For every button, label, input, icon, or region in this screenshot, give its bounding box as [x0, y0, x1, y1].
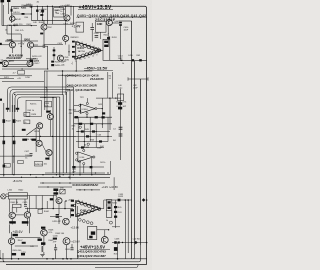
- svg-text:1k: 1k: [122, 63, 124, 65]
- left rails: [3, 103, 5, 177]
- capacitor C403: [30, 4, 32, 7]
- big label box mid-left: [26, 100, 41, 116]
- ground sym: [40, 254, 44, 256]
- bottom-left corner2: [3, 253, 5, 262]
- label Q417: [45, 158, 49, 160]
- wire v108: [107, 26, 109, 45]
- wire v30 link: [30, 48, 32, 61]
- wire y177.6: [0, 176, 110, 178]
- pin bubbles top edge: [76, 42, 101, 52]
- box y160: [18, 160, 23, 163]
- blobs y123.8: [79, 123, 93, 125]
- capacitor C401: [11, 9, 13, 12]
- wire q416-417: [42, 144, 46, 152]
- wire v110 mid: [109, 98, 111, 130]
- wire y208.6: [25, 208, 73, 210]
- center mesh horizontals: [76, 132, 110, 148]
- svg-text:C40 10: C40 10: [13, 12, 20, 14]
- left bus corner 2: [10, 90, 70, 113]
- transistor Q406: [63, 35, 69, 41]
- wire y25.6: [2, 25, 37, 27]
- ic405 left pin: [73, 204, 76, 207]
- wire v117.5: [117, 243, 119, 259]
- svg-text:14: 14: [75, 60, 77, 62]
- svg-text:R43 1k: R43 1k: [28, 110, 34, 112]
- box bottom right of center: [88, 226, 97, 239]
- blob d402: [40, 14, 43, 16]
- wire v107.8: [107, 72, 109, 98]
- more dots y174 pair: [21, 174, 74, 178]
- node top-left blobs: [1, 0, 5, 2]
- transistor Q421: [24, 212, 30, 218]
- extend y136.4: [76, 135, 112, 137]
- wire v102.3: [101, 98, 103, 128]
- resistor blobs on rails y121: [3, 119, 6, 123]
- transistor Q419: [63, 218, 70, 225]
- box GND: [95, 22, 106, 33]
- transistor Q402: [41, 24, 47, 30]
- wire y75.8: [0, 75, 32, 77]
- label on diagonal: [22, 129, 26, 131]
- capacitor c425: [24, 205, 27, 207]
- transistor Q413: [57, 55, 63, 61]
- junction y69: [21, 68, 48, 69]
- svg-text:+13.6V: +13.6V: [71, 240, 80, 244]
- blobs y167: [72, 166, 92, 168]
- components col x51-54: [51, 61, 54, 67]
- left column stack y205-228: [114, 206, 117, 218]
- relay X: [2, 195, 5, 198]
- svg-text:2: 2: [82, 42, 83, 44]
- box R425: [24, 112, 30, 116]
- input components column x73: [72, 41, 75, 58]
- svg-text:+13.6V: +13.6V: [71, 226, 80, 230]
- wire ic402 stubs: [80, 158, 92, 175]
- dots y242.5: [122, 242, 133, 243]
- wire v65.9: [65, 75, 67, 95]
- box 1k left of triangle: [76, 22, 84, 32]
- wire apex to box: [100, 208, 104, 210]
- wire y227 stub: [112, 226, 120, 228]
- wires bottom verticals: [12, 208, 72, 259]
- wire v7: [6, 26, 8, 34]
- label R440 box: [4, 163, 10, 167]
- svg-text:Q409: Q409: [7, 39, 14, 42]
- wire q411 right: [8, 60, 28, 62]
- bottom-left corners: [0, 250, 2, 259]
- diagonal wire: [26, 127, 37, 135]
- blob below Q402: [40, 33, 43, 35]
- wire relay-box: [6, 195, 8, 197]
- wire q402 stubs: [43, 20, 45, 24]
- wire y123.8: [74, 123, 112, 125]
- box R429: [45, 102, 52, 107]
- wire v109.8 up: [109, 36, 111, 39]
- wire v47 down: [46, 71, 48, 113]
- paper background: [0, 0, 152, 270]
- capacitor C427: [56, 214, 60, 218]
- svg-text:3: 3: [86, 44, 87, 46]
- wire y97.5: [40, 97, 56, 99]
- blob left edge y99: [0, 99, 2, 101]
- small opamp IC404: [80, 104, 95, 113]
- dots y183: [42, 182, 70, 187]
- wire v54: [53, 47, 55, 60]
- wire y34: [7, 33, 21, 35]
- blob rail y165: [3, 165, 5, 168]
- svg-text:2SA1943N: 2SA1943N: [6, 56, 20, 60]
- bottom right corner joins: [139, 245, 141, 262]
- label left blob: [0, 62, 2, 64]
- wire y156: [0, 155, 32, 157]
- junction y75: [62, 75, 63, 76]
- junction dots top: [31, 6, 72, 21]
- svg-text:AC42: AC42: [15, 18, 21, 21]
- ic402 pins: [76, 149, 96, 164]
- labels row y139: [22, 139, 27, 141]
- wire v69: [68, 45, 70, 56]
- blobs y254: [12, 253, 26, 255]
- svg-text:13: 13: [79, 59, 81, 61]
- blob left edge y43: [0, 43, 2, 45]
- wire y242.5 right: [112, 242, 147, 244]
- wire y200 right: [104, 199, 132, 201]
- junction dots hpair: [3, 174, 70, 178]
- svg-text:1k: 1k: [72, 129, 74, 131]
- transistor Q422: [8, 238, 14, 244]
- wire v71: [70, 6, 72, 15]
- ic405 bottom pins: [77, 209, 95, 217]
- wire y189.9: [76, 189, 100, 191]
- dots y173b: [95, 172, 109, 173]
- blob x102 upper: [102, 112, 105, 114]
- svg-text:C428 47P: C428 47P: [52, 221, 62, 223]
- relay circle: [1, 194, 6, 199]
- capacitor C408: [90, 28, 94, 30]
- junction v69: [68, 51, 69, 52]
- svg-text:R430 1k: R430 1k: [35, 164, 42, 166]
- svg-text:10: 10: [92, 56, 94, 58]
- wire right rail C: [134, 61, 136, 245]
- verticals bottom-left mesh: [36, 190, 70, 224]
- left bus corner 3: [13, 92, 67, 112]
- wire left to relay: [0, 195, 2, 197]
- equal marks left: [119, 127, 123, 136]
- svg-text:2SC3503F: 2SC3503F: [95, 18, 116, 22]
- wire y78.6 left: [0, 78, 14, 80]
- svg-text:R406: R406: [39, 22, 45, 24]
- svg-text:4: 4: [90, 204, 91, 206]
- svg-text:R417: R417: [35, 63, 41, 65]
- wire y20: [31, 19, 67, 21]
- svg-text:R43 22k: R43 22k: [69, 109, 76, 111]
- svg-text:4: 4: [90, 45, 91, 47]
- junction y71: [62, 70, 77, 71]
- wire y117: [74, 116, 112, 118]
- bottom junction dots: [11, 258, 118, 260]
- junction dots y97.5: [44, 97, 54, 98]
- blob c: [30, 59, 34, 62]
- wire q407 right: [112, 22, 119, 24]
- svg-text:R41 4.7k: R41 4.7k: [16, 30, 24, 32]
- transistor Q425: [101, 237, 108, 244]
- blobs stack C426: [53, 189, 58, 195]
- junction dots y25: [14, 25, 32, 26]
- svg-text:1: 1: [77, 41, 78, 43]
- transistor Q409: [9, 42, 15, 48]
- bottom bus line1: [0, 258, 147, 260]
- central bus verticals: [53, 87, 73, 180]
- wire left edge verticals: [1, 2, 3, 26]
- wire y66.8: [2, 66, 31, 68]
- wire q407 top: [108, 17, 110, 20]
- wire y187: [38, 186, 72, 188]
- junction on bus: [14, 94, 15, 95]
- box 4.7: [18, 71, 25, 74]
- wire v21 mid: [20, 34, 22, 58]
- svg-text:10k: 10k: [45, 105, 48, 107]
- bottom bus line2: [0, 261, 139, 263]
- ic405 left input blobs: [71, 200, 74, 217]
- underline -45V: [84, 69, 113, 71]
- wire v37: [36, 6, 38, 20]
- underline bottom +45V: [80, 248, 111, 250]
- junction y189.9: [79, 189, 92, 190]
- capacitor C433: [70, 248, 73, 250]
- resistor R404: [41, 10, 44, 12]
- svg-text:2SA1837F: 2SA1837F: [90, 77, 104, 81]
- svg-text:Q405,Q410 2SC1502R: Q405,Q410 2SC1502R: [67, 83, 97, 87]
- wire y75.2: [58, 74, 77, 76]
- diode box: [60, 189, 65, 194]
- wire q425 up: [104, 230, 106, 237]
- svg-text:(: (: [65, 74, 66, 78]
- wire v47.7: [47, 46, 49, 69]
- bottom bus line3: [6, 264, 147, 266]
- wire y60.3: [110, 59, 147, 61]
- wire y24: [44, 23, 74, 25]
- transistor Q417: [46, 150, 52, 156]
- rail marks y109: [6, 108, 19, 110]
- resistor zig: [31, 62, 33, 66]
- wire apex-box: [101, 49, 103, 51]
- svg-text:2: 2: [82, 201, 83, 203]
- capacitor c417 bars: [30, 154, 33, 156]
- svg-text:IC401: IC401: [78, 47, 85, 50]
- wire v65.7: [65, 6, 67, 15]
- svg-text:1k: 1k: [5, 30, 7, 32]
- wire y46: [34, 45, 44, 47]
- pin bubbles bottom edge: [74, 50, 99, 59]
- resistor blobs on rails y142: [3, 141, 6, 145]
- wire right border: [86, 6, 147, 264]
- svg-text:R43 1k: R43 1k: [30, 104, 36, 106]
- capacitor C411: [43, 45, 45, 48]
- center mesh dots: [78, 123, 109, 142]
- box R427: [24, 120, 30, 124]
- label Q423: [41, 227, 45, 229]
- center mesh blobs: [81, 130, 102, 148]
- junction dots y136: [3, 136, 53, 137]
- extra density labels: [5, 12, 76, 248]
- transistor Q407: [106, 20, 112, 26]
- svg-text:1k: 1k: [24, 115, 26, 117]
- svg-text:+45V/+13.5V: +45V/+13.5V: [79, 5, 112, 11]
- svg-text:GND: GND: [97, 23, 103, 26]
- svg-text:+12V: +12V: [102, 185, 109, 189]
- svg-text:R411 220: R411 220: [14, 24, 23, 26]
- svg-text:11: 11: [88, 57, 90, 59]
- svg-text:Q405: Q405: [60, 6, 66, 8]
- component on v37: [36, 10, 38, 12]
- transistor Q401: [10, 16, 15, 21]
- wire q414 v: [49, 120, 51, 137]
- mid horizontal y136.4: [0, 135, 76, 137]
- svg-text:1k: 1k: [106, 220, 108, 222]
- ic404 pins: [79, 102, 97, 114]
- blobs y117: [75, 116, 105, 118]
- svg-text:/+10.8V: /+10.8V: [109, 185, 118, 189]
- left bus corner 5: [18, 97, 60, 112]
- wire below triangle: [75, 61, 77, 72]
- transistor Q420: [9, 212, 15, 218]
- resistor zigzag bottom: [42, 246, 44, 252]
- wire y173: [45, 172, 105, 174]
- wire y58.8: [26, 58, 36, 60]
- right dimension arrow y79: [128, 77, 148, 80]
- svg-text:4.7k: 4.7k: [49, 232, 53, 234]
- svg-text:4.7k: 4.7k: [123, 101, 127, 103]
- box right of ic405: [106, 200, 112, 218]
- wire y71: [44, 70, 92, 72]
- underline +45V top: [78, 9, 113, 11]
- corner b: [133, 245, 135, 259]
- transistor Q410: [27, 42, 33, 48]
- wire box-down: [9, 196, 29, 213]
- wire v62.5: [62, 71, 64, 95]
- pin numbers ic405: [78, 200, 95, 207]
- junction y156: [13, 155, 14, 156]
- wire y41 top link: [11, 40, 13, 43]
- svg-text:Q419,Q422 2SA1837: Q419,Q422 2SA1837: [77, 254, 106, 258]
- right bus lower verticals: [125, 200, 128, 259]
- junction ic404: [78, 108, 103, 125]
- svg-text:Q415,Q420 2SC4793: Q415,Q420 2SC4793: [77, 250, 106, 254]
- wire v77.3: [76, 206, 78, 259]
- capacitor C410: [119, 22, 122, 24]
- pin numbers top: [77, 41, 99, 50]
- pin numbers bottom: [75, 55, 98, 63]
- wire v12 link: [11, 48, 13, 53]
- wire v120 lower stub: [120, 89, 122, 161]
- wire gnd box down: [100, 32, 102, 39]
- resistor box R443: [13, 204, 21, 207]
- transistor Q423: [41, 229, 48, 236]
- wire right rail D: [140, 79, 142, 245]
- svg-text:1k: 1k: [25, 157, 27, 159]
- svg-text:12: 12: [84, 58, 86, 60]
- wire v44.8 down: [44, 71, 46, 110]
- wire v52: [51, 6, 53, 24]
- svg-text:100P: 100P: [118, 58, 123, 60]
- label R446 blob: [13, 234, 18, 236]
- svg-text:−45V/−13.5V: −45V/−13.5V: [84, 66, 108, 71]
- svg-text:5: 5: [94, 205, 95, 207]
- junction dots y208: [42, 208, 66, 209]
- svg-text:TA7250: TA7250: [78, 50, 86, 53]
- wire right rail E: [120, 26, 122, 62]
- blobs in box: [89, 231, 95, 238]
- wire y246 bl: [15, 245, 38, 247]
- underline top typed row: [76, 16, 147, 18]
- transistor Q415: [37, 123, 43, 129]
- blobs in apex box: [104, 41, 108, 43]
- svg-text:9: 9: [96, 55, 97, 57]
- triangle IC405: [76, 201, 101, 217]
- svg-text:5: 5: [94, 46, 95, 48]
- wire v73.6: [73, 6, 75, 24]
- wire y44.6: [44, 44, 63, 46]
- box R430: [35, 161, 43, 166]
- svg-text:IC403 NJM4556AF: IC403 NJM4556AF: [73, 183, 99, 187]
- center bubbles: [79, 126, 81, 128]
- box 1k bottom: [38, 209, 42, 213]
- svg-text:1: 1: [78, 200, 79, 202]
- label Q414: [46, 111, 50, 113]
- label Q420: [9, 221, 16, 223]
- blobs y200: [118, 198, 148, 202]
- wire v36 cluster: [35, 128, 37, 152]
- svg-text:3: 3: [86, 202, 87, 204]
- bubble below box: [109, 221, 112, 224]
- wire q415 v: [39, 129, 41, 141]
- svg-text:100P: 100P: [124, 30, 129, 32]
- svg-text:+B 41.5V: +B 41.5V: [13, 181, 23, 183]
- wire y175: [0, 174, 110, 176]
- svg-text:6: 6: [98, 48, 99, 50]
- left bus corner 1: [8, 87, 74, 112]
- wire v59: [58, 6, 60, 7]
- label Q421: [22, 221, 29, 223]
- opamp IC402 triangle2: [78, 152, 93, 162]
- transistor Q424: [63, 238, 70, 245]
- svg-text:+45.6V: +45.6V: [12, 230, 23, 234]
- svg-text:100P: 100P: [97, 148, 102, 150]
- wire q409 left: [0, 44, 9, 46]
- corner wire into cluster A: [45, 87, 47, 92]
- junction y98: [109, 97, 116, 98]
- svg-text:R4 1k: R4 1k: [100, 162, 105, 164]
- wire y81.5: [2, 81, 44, 83]
- diode D401: [22, 13, 25, 15]
- blobs v54: [53, 49, 56, 56]
- wire between q420 q421: [15, 214, 24, 216]
- wire second top: [12, 13, 32, 15]
- label Q418: [50, 198, 54, 200]
- junction y174: [59, 174, 92, 177]
- bottom extra line: [95, 267, 136, 269]
- blob right q422: [22, 242, 26, 244]
- wire v13.9: [13, 156, 15, 163]
- wire right rail B: [131, 21, 133, 259]
- svg-text:+45V: +45V: [24, 5, 30, 8]
- svg-text:IC40: IC40: [80, 157, 85, 159]
- bottom extra corner: [136, 265, 138, 268]
- wire v110.4: [109, 161, 111, 175]
- wire v112.5: [112, 72, 114, 98]
- svg-text:Q411: Q411: [9, 60, 15, 63]
- transistor Q414: [47, 114, 53, 120]
